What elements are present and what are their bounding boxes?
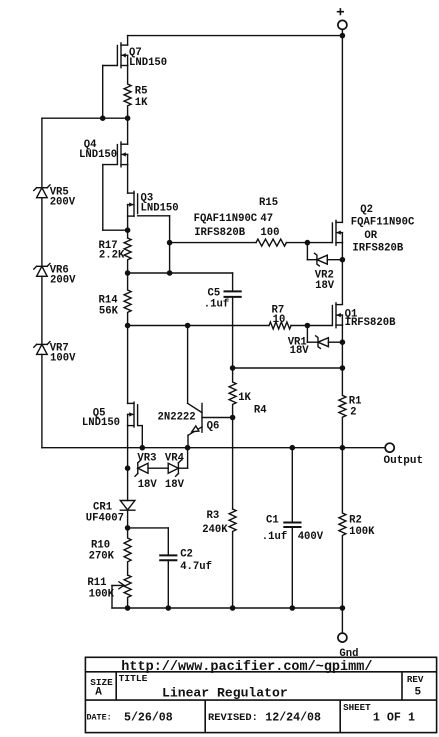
- diode VR1: [305, 323, 344, 348]
- svg-text:VR3: VR3: [137, 452, 156, 464]
- node junction R2 bottom: [340, 606, 344, 610]
- resistor R2: [339, 448, 346, 608]
- svg-text:IRFS820B: IRFS820B: [352, 242, 404, 254]
- svg-text:http://www.pacifier.com/~gpimm: http://www.pacifier.com/~gpimm/: [121, 660, 372, 675]
- wire Q3 source down: [127, 216, 129, 238]
- wire top rail: [128, 35, 343, 37]
- node junction Q1 source wire: [340, 366, 344, 370]
- transistor Q6: [188, 326, 233, 448]
- wire CR1 to C2: [128, 527, 169, 529]
- svg-text:100K: 100K: [89, 588, 115, 600]
- svg-text:FQAF11N90C: FQAF11N90C: [351, 217, 415, 229]
- diode VR3: [135, 460, 168, 476]
- transistor Q1: [332, 303, 342, 328]
- node junction R4 bottom: [231, 415, 235, 419]
- svg-text:IRFS820B: IRFS820B: [194, 227, 246, 239]
- transistor Q5: [128, 326, 143, 448]
- svg-text:C2: C2: [180, 548, 193, 560]
- svg-text:Linear Regulator: Linear Regulator: [162, 686, 288, 701]
- wire to Gnd: [341, 608, 343, 633]
- wire y273: [128, 272, 233, 274]
- resistor R3: [229, 418, 236, 609]
- node junction C5 R4: [231, 366, 235, 370]
- svg-text:LND150: LND150: [82, 417, 120, 429]
- svg-text:C1: C1: [266, 514, 279, 526]
- transistor Q7: [103, 36, 128, 119]
- svg-text:Gnd: Gnd: [339, 648, 358, 660]
- wire Q1 source down: [341, 325, 343, 368]
- svg-text:LND150: LND150: [79, 149, 117, 161]
- svg-text:18V: 18V: [165, 479, 185, 491]
- node junction R1 bottom: [340, 446, 344, 450]
- node junction Q7 gate: [101, 116, 105, 120]
- svg-text:47: 47: [260, 213, 273, 225]
- node Gnd terminal: [338, 633, 347, 642]
- resistor R5: [124, 66, 131, 119]
- transistor Q4: [103, 118, 128, 230]
- svg-text:1K: 1K: [135, 97, 148, 109]
- node junction Q6 emitter: [186, 446, 190, 450]
- svg-text:REVISED:: REVISED:: [208, 712, 258, 724]
- node junction R14 bottom: [126, 323, 130, 327]
- svg-text:.1uf: .1uf: [262, 531, 287, 543]
- node junction Q3 gate T: [168, 271, 172, 275]
- svg-text:5: 5: [415, 687, 422, 699]
- svg-text:Output: Output: [384, 455, 424, 467]
- node + terminal: [338, 9, 347, 36]
- svg-text:5/26/08: 5/26/08: [124, 712, 173, 725]
- svg-text:18V: 18V: [138, 479, 158, 491]
- node junction C1 top: [290, 446, 294, 450]
- wire left rail 4: [41, 354, 43, 447]
- node junction R17 bottom: [126, 271, 130, 275]
- wire y368: [233, 367, 343, 369]
- wire left rail: [41, 118, 43, 188]
- svg-text:10: 10: [273, 314, 286, 326]
- svg-text:240K: 240K: [202, 524, 228, 536]
- svg-text:R15: R15: [259, 197, 278, 209]
- svg-text:200V: 200V: [50, 275, 76, 287]
- wire right rail upper: [341, 36, 343, 223]
- resistor R1: [339, 368, 346, 448]
- node junction Q4 gate return: [126, 228, 130, 232]
- resistor R4: [229, 368, 236, 418]
- svg-text:2N2222: 2N2222: [158, 411, 196, 423]
- node junction CR1 bottom: [126, 526, 130, 530]
- wire Q4 source to Q3 drain: [127, 165, 129, 194]
- svg-text:100K: 100K: [349, 526, 375, 538]
- svg-text:400V: 400V: [298, 531, 324, 543]
- node junction R5 bottom: [126, 116, 130, 120]
- capacitor C2: [160, 528, 176, 608]
- svg-text:TITLE: TITLE: [119, 673, 148, 684]
- svg-text:SHEET: SHEET: [343, 702, 371, 713]
- capacitor C5: [225, 273, 241, 368]
- resistor R14: [124, 273, 131, 326]
- node junction R15 T: [168, 241, 172, 245]
- title block frame: [85, 657, 436, 732]
- node junction VR3 left: [126, 466, 130, 470]
- svg-text:2.2K: 2.2K: [99, 250, 125, 262]
- wire left rail 2: [41, 198, 43, 267]
- svg-text:A: A: [95, 687, 102, 699]
- svg-text:OR: OR: [364, 230, 377, 242]
- transistor Q3: [128, 191, 170, 273]
- svg-text:56K: 56K: [99, 306, 119, 318]
- node junction Q5 gate: [140, 446, 144, 450]
- wire Q5 source down: [127, 426, 129, 469]
- svg-text:R5: R5: [135, 86, 148, 98]
- wire R7 gate wire: [128, 325, 333, 327]
- svg-text:LND150: LND150: [129, 57, 167, 69]
- node Output terminal: [385, 443, 394, 452]
- resistor R11 potentiometer: [112, 575, 131, 608]
- svg-text:100: 100: [260, 227, 279, 239]
- svg-text:1 OF 1: 1 OF 1: [373, 711, 415, 725]
- svg-text:FQAF11N90C: FQAF11N90C: [194, 213, 258, 225]
- diode VR5: [34, 185, 50, 198]
- svg-text:200V: 200V: [50, 197, 76, 209]
- svg-text:18V: 18V: [290, 345, 310, 357]
- node junction C2 bottom: [166, 606, 170, 610]
- resistor R17: [124, 238, 131, 273]
- diode VR4: [168, 448, 187, 477]
- transistor Q2: [332, 220, 342, 245]
- svg-text:Q6: Q6: [207, 421, 220, 433]
- node junction C1 bottom: [290, 606, 294, 610]
- svg-text:UF4007: UF4007: [86, 513, 124, 525]
- resistor R10: [124, 528, 131, 575]
- resistor R15: [256, 239, 286, 246]
- svg-text:R4: R4: [254, 404, 267, 416]
- wire output: [42, 447, 385, 449]
- wire Q2 source down: [341, 243, 343, 305]
- node junction Q6 base T: [186, 323, 190, 327]
- svg-text:Q2: Q2: [360, 204, 373, 216]
- svg-text:2: 2: [350, 407, 356, 419]
- diode VR6: [34, 264, 50, 277]
- svg-text:.1uf: .1uf: [204, 298, 229, 310]
- node junction R11 bottom: [126, 606, 130, 610]
- diode VR7: [34, 342, 50, 355]
- node junction R3 bottom: [231, 606, 235, 610]
- svg-text:270K: 270K: [89, 550, 115, 562]
- wire bottom rail: [112, 607, 342, 609]
- svg-text:VR4: VR4: [165, 452, 185, 464]
- wire y118: [42, 117, 128, 119]
- wire R15 gate wire: [170, 242, 333, 244]
- capacitor C1: [284, 448, 300, 608]
- svg-text:12/24/08: 12/24/08: [265, 712, 321, 725]
- svg-text:18V: 18V: [315, 280, 335, 292]
- resistor R7: [269, 322, 291, 329]
- wire left rail 3: [41, 276, 43, 344]
- diode CR1: [120, 468, 135, 528]
- svg-text:R3: R3: [207, 510, 220, 522]
- svg-text:LND150: LND150: [141, 202, 179, 214]
- svg-text:REV: REV: [407, 674, 424, 685]
- svg-text:4.7uf: 4.7uf: [180, 561, 212, 573]
- svg-text:R2: R2: [349, 515, 362, 527]
- svg-text:IRFS820B: IRFS820B: [345, 317, 397, 329]
- diode VR2: [305, 241, 344, 266]
- svg-text:DATE:: DATE:: [87, 713, 112, 723]
- node junction top-right: [340, 34, 344, 38]
- svg-text:100V: 100V: [50, 353, 76, 365]
- svg-text:1K: 1K: [238, 392, 251, 404]
